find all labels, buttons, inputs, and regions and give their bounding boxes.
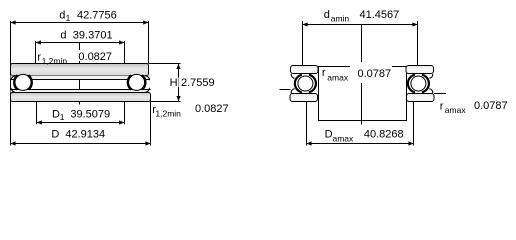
- extension line right damin: [417, 21, 419, 65]
- ball B: [129, 74, 145, 90]
- arrow D right: [145, 141, 150, 145]
- raceway crescent right of ball B: [142, 75, 145, 89]
- extension line right D: [150, 100, 152, 146]
- housing washer right segment: [407, 94, 435, 102]
- dimension line d1: [11, 22, 149, 24]
- dimension line Damax: [307, 143, 414, 145]
- race lip curl top washer right end: [145, 76, 149, 80]
- svg-text:2.7559: 2.7559: [181, 77, 215, 89]
- race lip curl TR washer: [429, 74, 432, 78]
- dimension line D: [11, 143, 151, 145]
- svg-text:r: r: [322, 67, 326, 79]
- svg-text:amax: amax: [445, 105, 467, 115]
- label D1 value: [52, 108, 110, 122]
- centerline axis figure1: [79, 43, 81, 105]
- arrow D left: [10, 141, 15, 145]
- race lip curl bottom washer left end: [11, 88, 15, 92]
- label Damax value: [325, 129, 404, 144]
- svg-text:1,2min: 1,2min: [42, 56, 68, 66]
- svg-text:d: d: [60, 29, 66, 41]
- extension line left (d1/D): [10, 21, 12, 146]
- label damin value: [324, 9, 400, 24]
- race lip curl BL washer: [291, 89, 294, 93]
- arrow d right: [119, 40, 124, 44]
- arrow damin left: [302, 22, 307, 26]
- svg-text:amin: amin: [331, 14, 350, 24]
- race lip curl BR washer: [429, 89, 432, 93]
- race lip curl TL washer: [291, 74, 294, 78]
- label ramax right outside: [440, 100, 508, 115]
- label d value: [60, 29, 112, 41]
- svg-text:42.9134: 42.9134: [65, 129, 105, 141]
- svg-text:1,2min: 1,2min: [155, 109, 181, 119]
- extension line right Damax: [413, 102, 415, 146]
- svg-text:0.0787: 0.0787: [358, 68, 392, 80]
- ball D: [411, 76, 426, 91]
- H extension line bottom: [151, 101, 181, 103]
- shaft washer left segment: [291, 66, 319, 74]
- arrow D1 right: [119, 120, 124, 124]
- housing shoulder line right: [434, 93, 446, 95]
- race lip curl bottom washer right end: [145, 88, 149, 92]
- central abutment block: [319, 67, 407, 121]
- extension line right d1: [148, 21, 150, 64]
- arrow d1 right: [143, 20, 148, 24]
- extension line right d: [124, 41, 126, 64]
- extension line left d: [35, 41, 37, 64]
- arrow H up: [176, 64, 180, 69]
- label r12min lower right: [152, 103, 228, 119]
- svg-text:D: D: [51, 129, 59, 141]
- shaft washer right segment: [406, 66, 434, 74]
- svg-text:amax: amax: [327, 73, 349, 83]
- svg-text:40.8268: 40.8268: [364, 129, 404, 141]
- label ramax in block with background: [322, 62, 392, 83]
- extension line right D1: [124, 102, 126, 125]
- extension line left D1: [36, 102, 38, 125]
- arrow H down: [176, 96, 180, 101]
- raceway crescent left of ball A: [14, 75, 17, 89]
- arrow Damax left: [306, 141, 311, 145]
- housing washer (bottom): [11, 93, 151, 102]
- raceway crescent left of ball B: [128, 75, 131, 89]
- dimension line D1: [37, 122, 125, 124]
- label r12min top with background: [37, 50, 113, 66]
- H extension line top: [149, 63, 181, 65]
- svg-text:1: 1: [60, 112, 65, 122]
- svg-text:H: H: [170, 77, 178, 89]
- raceway rim line lower: [11, 89, 151, 91]
- extension line left Damax: [306, 102, 308, 146]
- dimension line d: [36, 42, 125, 44]
- arrow D1 left: [37, 120, 42, 124]
- svg-text:42.7756: 42.7756: [77, 10, 117, 22]
- svg-text:39.3701: 39.3701: [73, 29, 113, 41]
- race strip upper: [11, 76, 151, 80]
- svg-text:D: D: [52, 108, 60, 120]
- race strip lower: [11, 90, 151, 93]
- raceway crescent right of ball C: [309, 75, 316, 93]
- raceway rim line upper: [11, 79, 151, 81]
- label D value: [51, 129, 105, 141]
- dimension line damin: [303, 24, 418, 26]
- svg-text:0.0787: 0.0787: [474, 100, 508, 112]
- raceway crescent right of ball D: [422, 75, 429, 93]
- arrow d left: [36, 40, 41, 44]
- ball A: [15, 74, 31, 90]
- label d1 value: [59, 10, 116, 23]
- housing washer left segment: [290, 94, 318, 102]
- arrow d1 left: [10, 20, 15, 24]
- race lip curl top washer left end: [11, 76, 15, 80]
- ball C: [298, 76, 313, 91]
- centerline axis figure2: [361, 25, 363, 125]
- raceway crescent left of ball D: [408, 75, 415, 93]
- svg-text:0.0827: 0.0827: [195, 103, 229, 115]
- svg-text:r: r: [440, 101, 444, 113]
- svg-text:39.5079: 39.5079: [70, 108, 110, 120]
- extension line left damin: [302, 21, 304, 65]
- raceway crescent left of ball C: [295, 75, 302, 93]
- svg-text:D: D: [325, 129, 333, 141]
- label H value: [170, 77, 215, 89]
- svg-text:0.0827: 0.0827: [78, 51, 112, 63]
- shaft shoulder line left: [280, 89, 291, 91]
- svg-text:41.4567: 41.4567: [360, 9, 400, 21]
- svg-text:1: 1: [66, 13, 71, 23]
- arrow damin right: [412, 22, 417, 26]
- H dimension line: [178, 64, 180, 78]
- svg-text:d: d: [324, 9, 330, 21]
- svg-text:amax: amax: [333, 134, 355, 144]
- shaft washer (top): [11, 64, 149, 76]
- svg-text:d: d: [59, 10, 65, 22]
- raceway crescent right of ball A: [29, 75, 32, 89]
- arrow Damax right: [408, 141, 413, 145]
